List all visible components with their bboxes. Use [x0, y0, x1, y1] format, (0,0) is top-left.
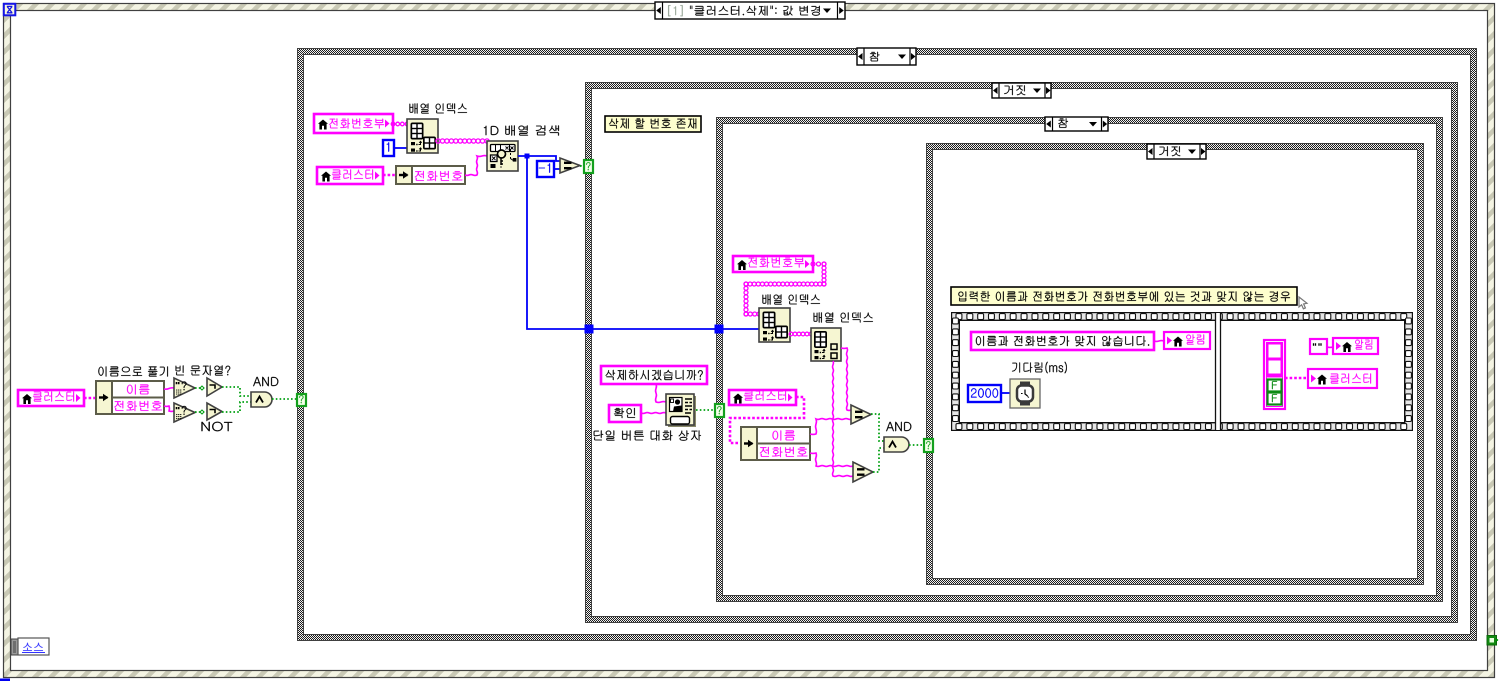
label 단일 버튼 대화 상자: [594, 430, 701, 440]
local variable write 클러스터 (frame2): [1308, 369, 1377, 388]
blue tunnel on case2 border: [585, 325, 594, 334]
array wire 전화번호부 to index-array (case3): [744, 262, 826, 316]
wire empty1 to not1: [195, 386, 207, 390]
NOT gate 1: [207, 378, 222, 396]
array wire 전화번호부 to index-array: [391, 122, 409, 126]
string wire 확인 to dialog: [641, 412, 666, 415]
case structure 4 selector label 거짓: [1147, 144, 1206, 159]
local variable write 알림 (frame2): [1333, 338, 1378, 354]
wire and2 to tunnel: [909, 444, 926, 446]
label 1D 배열 검색: [484, 125, 559, 135]
string wire 전화번호 to empty-string-2: [164, 406, 174, 411]
cluster wire 클러스터 to unbundle (case3): [730, 397, 804, 443]
case structure 3 selector label 참: [1045, 117, 1108, 131]
string wire 이름 to equals2: [810, 419, 852, 435]
equals node 2: [851, 405, 871, 424]
local variable write 알림 (frame1): [1164, 332, 1210, 349]
local variable 클러스터 (left): [18, 390, 84, 406]
wire 1 to index-array: [394, 147, 407, 149]
label AND (case3): [886, 422, 911, 431]
wire empty2 to not2: [195, 410, 207, 414]
cluster wire cluster-const to 클러스터: [1285, 377, 1308, 380]
event structure selector label "[1] 클러스터.삭제: 값 변경": [655, 2, 845, 19]
cluster wire 클러스터 to unbundle (case1): [383, 174, 396, 177]
string wire index2-out1 to equals2: [841, 348, 851, 410]
boolean tunnel ? on case4 border: [924, 439, 933, 452]
label 빈 문자열?: [176, 365, 231, 375]
cursor icon: [1299, 297, 1307, 309]
wire search to junction: [518, 154, 560, 162]
wire not1 to and1: [222, 387, 251, 396]
label 배열 인덱스 (case3 first): [763, 294, 821, 304]
unbundle 전화번호 (case1): [396, 166, 465, 184]
free label 입력한 이름과 전화번호가...: [951, 287, 1297, 305]
case structure 2 border: [585, 82, 1458, 623]
wire equals2 to and2: [871, 414, 884, 441]
index array node (case1): [407, 119, 438, 153]
wire and1 to tunnel: [272, 398, 297, 400]
equals node 3: [853, 462, 873, 482]
AND gate (case3): [884, 437, 909, 452]
unbundle 이름/전화번호 (case3): [741, 427, 810, 460]
numeric constant 1: [383, 140, 394, 156]
one button dialog node: [666, 394, 696, 427]
wire not2 to and1: [222, 402, 251, 412]
wire equals to tunnel: [580, 165, 585, 167]
flat sequence frame divider: [1215, 312, 1221, 431]
event data node 소스: [11, 638, 49, 655]
local variable 클러스터 (case3): [729, 390, 796, 405]
local variable 전화번호부 (case1): [314, 114, 393, 133]
cluster constant: [1264, 340, 1285, 409]
case structure 3 border: [716, 117, 1443, 602]
label 기다림(ms): [1012, 362, 1067, 374]
string constant 이름과 전화번호가 맞지 않습니다.: [971, 332, 1154, 350]
boolean tunnel ? on case3 border: [715, 404, 724, 417]
index array node (case3 first): [759, 308, 790, 342]
wire 2000 to wait: [1001, 392, 1010, 394]
case structure 1 border: [297, 48, 1477, 641]
empty string? node 1: [174, 378, 195, 398]
empty string? node 2: [174, 403, 195, 422]
tunnel on event structure right border: [1487, 636, 1500, 646]
array wire index1 to index2: [789, 332, 813, 336]
string constant empty (frame2): [1310, 339, 1327, 354]
index array node (case3 second): [811, 328, 841, 361]
flat sequence structure border: [951, 312, 1413, 431]
string wire empty to 알림 (frame2): [1327, 346, 1333, 348]
unbundle by name 이름/전화번호 (left): [96, 381, 164, 414]
numeric constant 2000: [968, 385, 1001, 402]
label AND (left): [253, 377, 278, 386]
string wire 전화번호 to search: [465, 156, 487, 176]
wait (ms) node: [1010, 379, 1040, 408]
label 배열 인덱스 (case1): [410, 103, 468, 113]
blue tunnel on case3 border: [715, 325, 724, 334]
search 1D array node: [487, 141, 518, 171]
string wire 이름 to empty-string-1: [164, 388, 174, 389]
string constant 확인: [609, 405, 641, 422]
boolean tunnel ? on case1 border: [297, 394, 306, 406]
array wire index-array to search: [436, 139, 489, 143]
local variable 전화번호부 (case3): [733, 256, 813, 272]
label 배열 인덱스 (case3 second): [814, 312, 873, 322]
wire dialog to tunnel: [696, 409, 716, 411]
equals node (case1): [560, 158, 580, 173]
boolean tunnel ? on case2 border: [584, 160, 593, 173]
label NOT: [202, 422, 233, 431]
local variable 클러스터 (case1): [317, 167, 383, 184]
string wire to 알림 (frame1): [1154, 340, 1164, 343]
event structure timeout terminal: [4, 4, 16, 16]
NOT gate 2: [207, 403, 222, 420]
string wire index2-out2 to equals3: [833, 361, 853, 476]
wire junction down-right: [527, 156, 759, 329]
string wire 삭제하시겠습니까 to dialog: [656, 384, 666, 402]
case structure 4 border: [926, 143, 1424, 585]
string wire 전화번호 to equals3: [810, 453, 853, 466]
label 이름으로 풀기: [98, 366, 167, 376]
wire equals3 to and2: [873, 448, 884, 472]
numeric constant -1: [537, 161, 554, 177]
free label 삭제 할 번호 존재: [605, 116, 701, 132]
AND gate (left): [251, 392, 272, 407]
cluster wire 클러스터 to unbundle: [84, 397, 96, 400]
wire -1 to equals: [554, 168, 560, 170]
while loop edge fragment (bottom-left): [0, 679, 10, 682]
case structure 1 selector label 참: [857, 48, 916, 65]
string constant 삭제하시겠습니까?: [601, 366, 707, 384]
case structure 2 selector label 거짓: [992, 83, 1051, 98]
